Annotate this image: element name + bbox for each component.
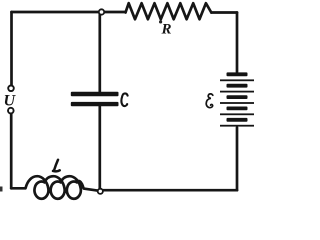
terminal upper circle xyxy=(8,86,14,92)
node bottom junction xyxy=(98,189,103,194)
svg-text:U: U xyxy=(4,93,17,110)
wire top node to resistor xyxy=(104,11,126,14)
resistor R xyxy=(126,3,212,19)
wire left side upper xyxy=(10,12,13,86)
label EMF script E xyxy=(206,94,213,108)
svg-text:R: R xyxy=(161,22,172,38)
capacitor C plates xyxy=(71,92,119,107)
node top junction xyxy=(99,9,104,14)
wire battery bottom to corner xyxy=(236,128,239,191)
wire bottom-left to inductor xyxy=(11,187,25,190)
wire bottom-right to node xyxy=(103,189,237,192)
ink dot under resistor xyxy=(159,20,162,23)
label C xyxy=(121,93,127,106)
battery E plates xyxy=(220,72,254,126)
wire capacitor branch lower xyxy=(98,107,101,190)
wire resistor to top-right corner xyxy=(211,11,237,14)
edge artifact bottom-left xyxy=(0,187,3,192)
label L xyxy=(53,160,60,171)
wire left side lower xyxy=(10,114,13,189)
inductor L xyxy=(26,176,98,199)
wire right side down to battery xyxy=(236,13,239,73)
wire top-left horizontal xyxy=(12,11,100,14)
terminal lower circle xyxy=(8,108,14,114)
wire capacitor branch upper xyxy=(98,15,101,92)
